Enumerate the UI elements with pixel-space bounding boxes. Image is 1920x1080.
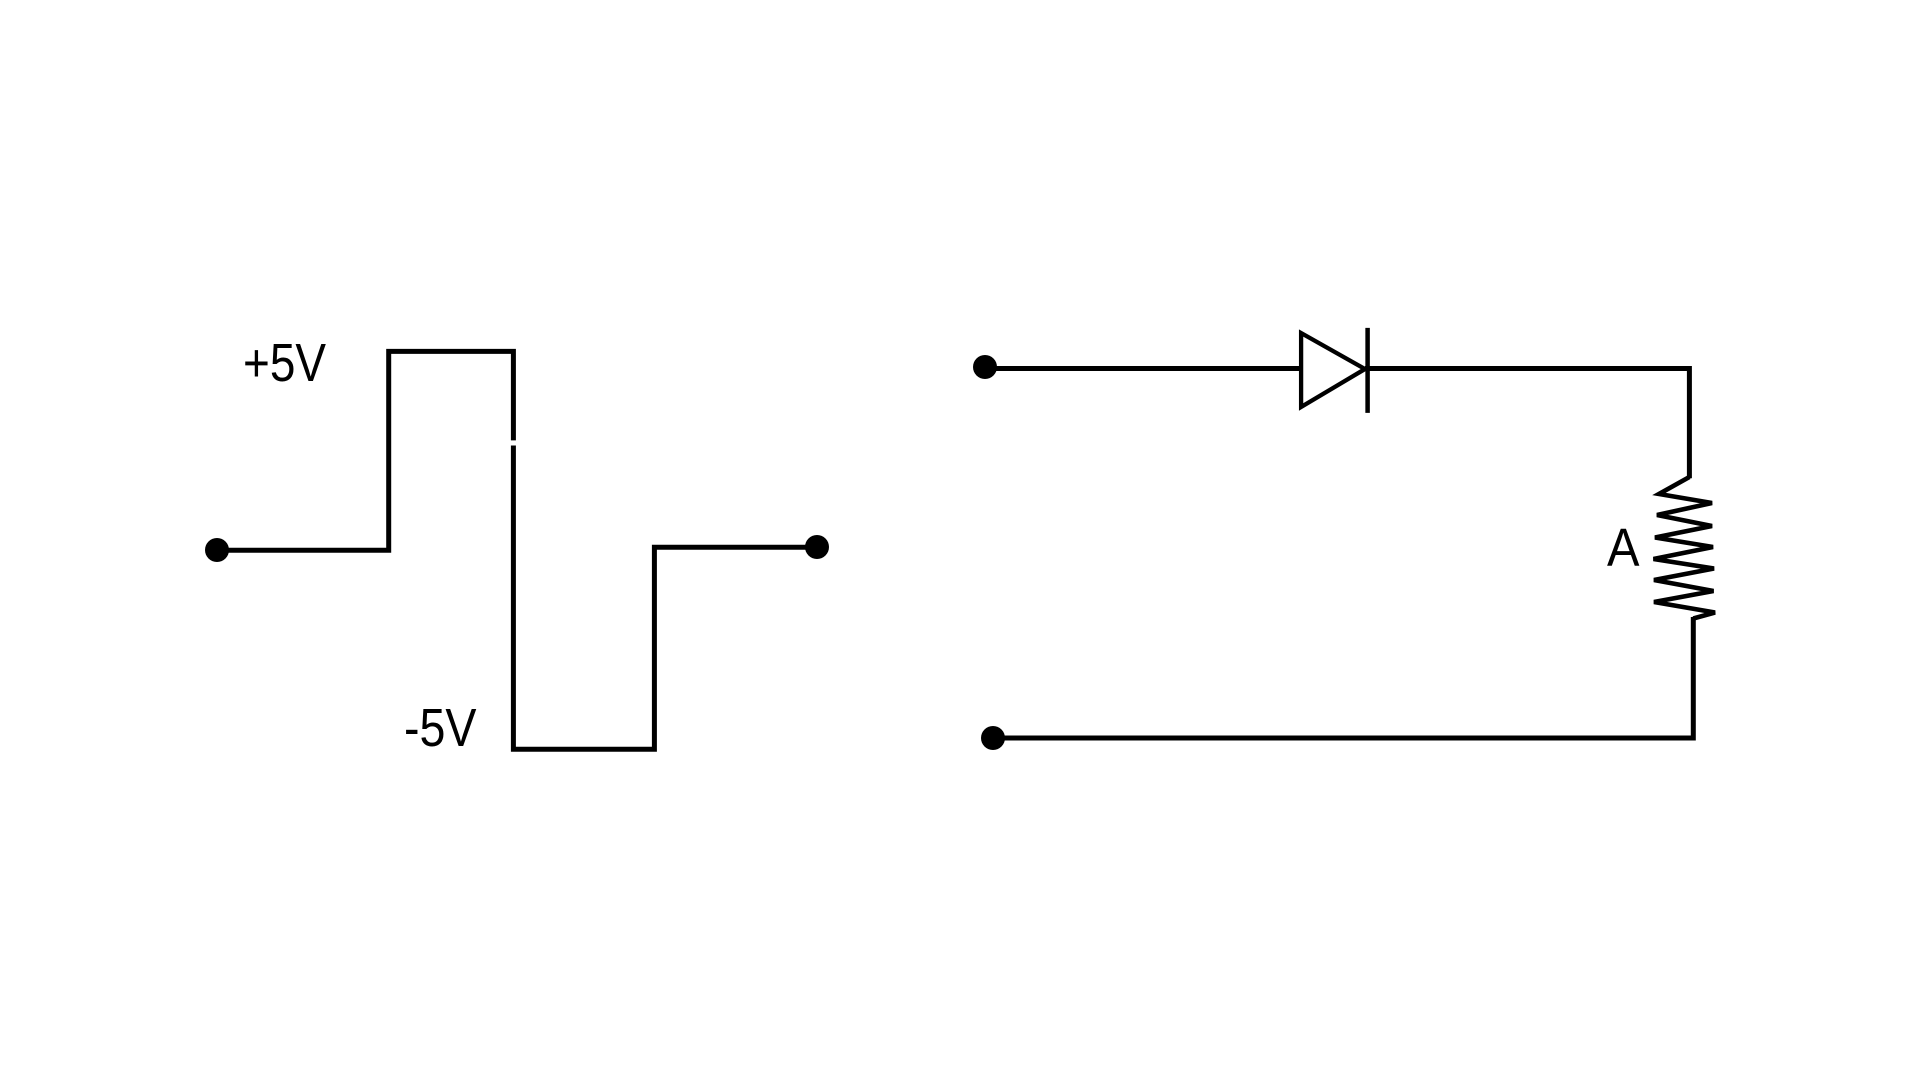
svg-text:-5V: -5V bbox=[404, 698, 477, 758]
svg-text:A: A bbox=[1607, 518, 1640, 578]
svg-text:+5V: +5V bbox=[243, 333, 326, 393]
